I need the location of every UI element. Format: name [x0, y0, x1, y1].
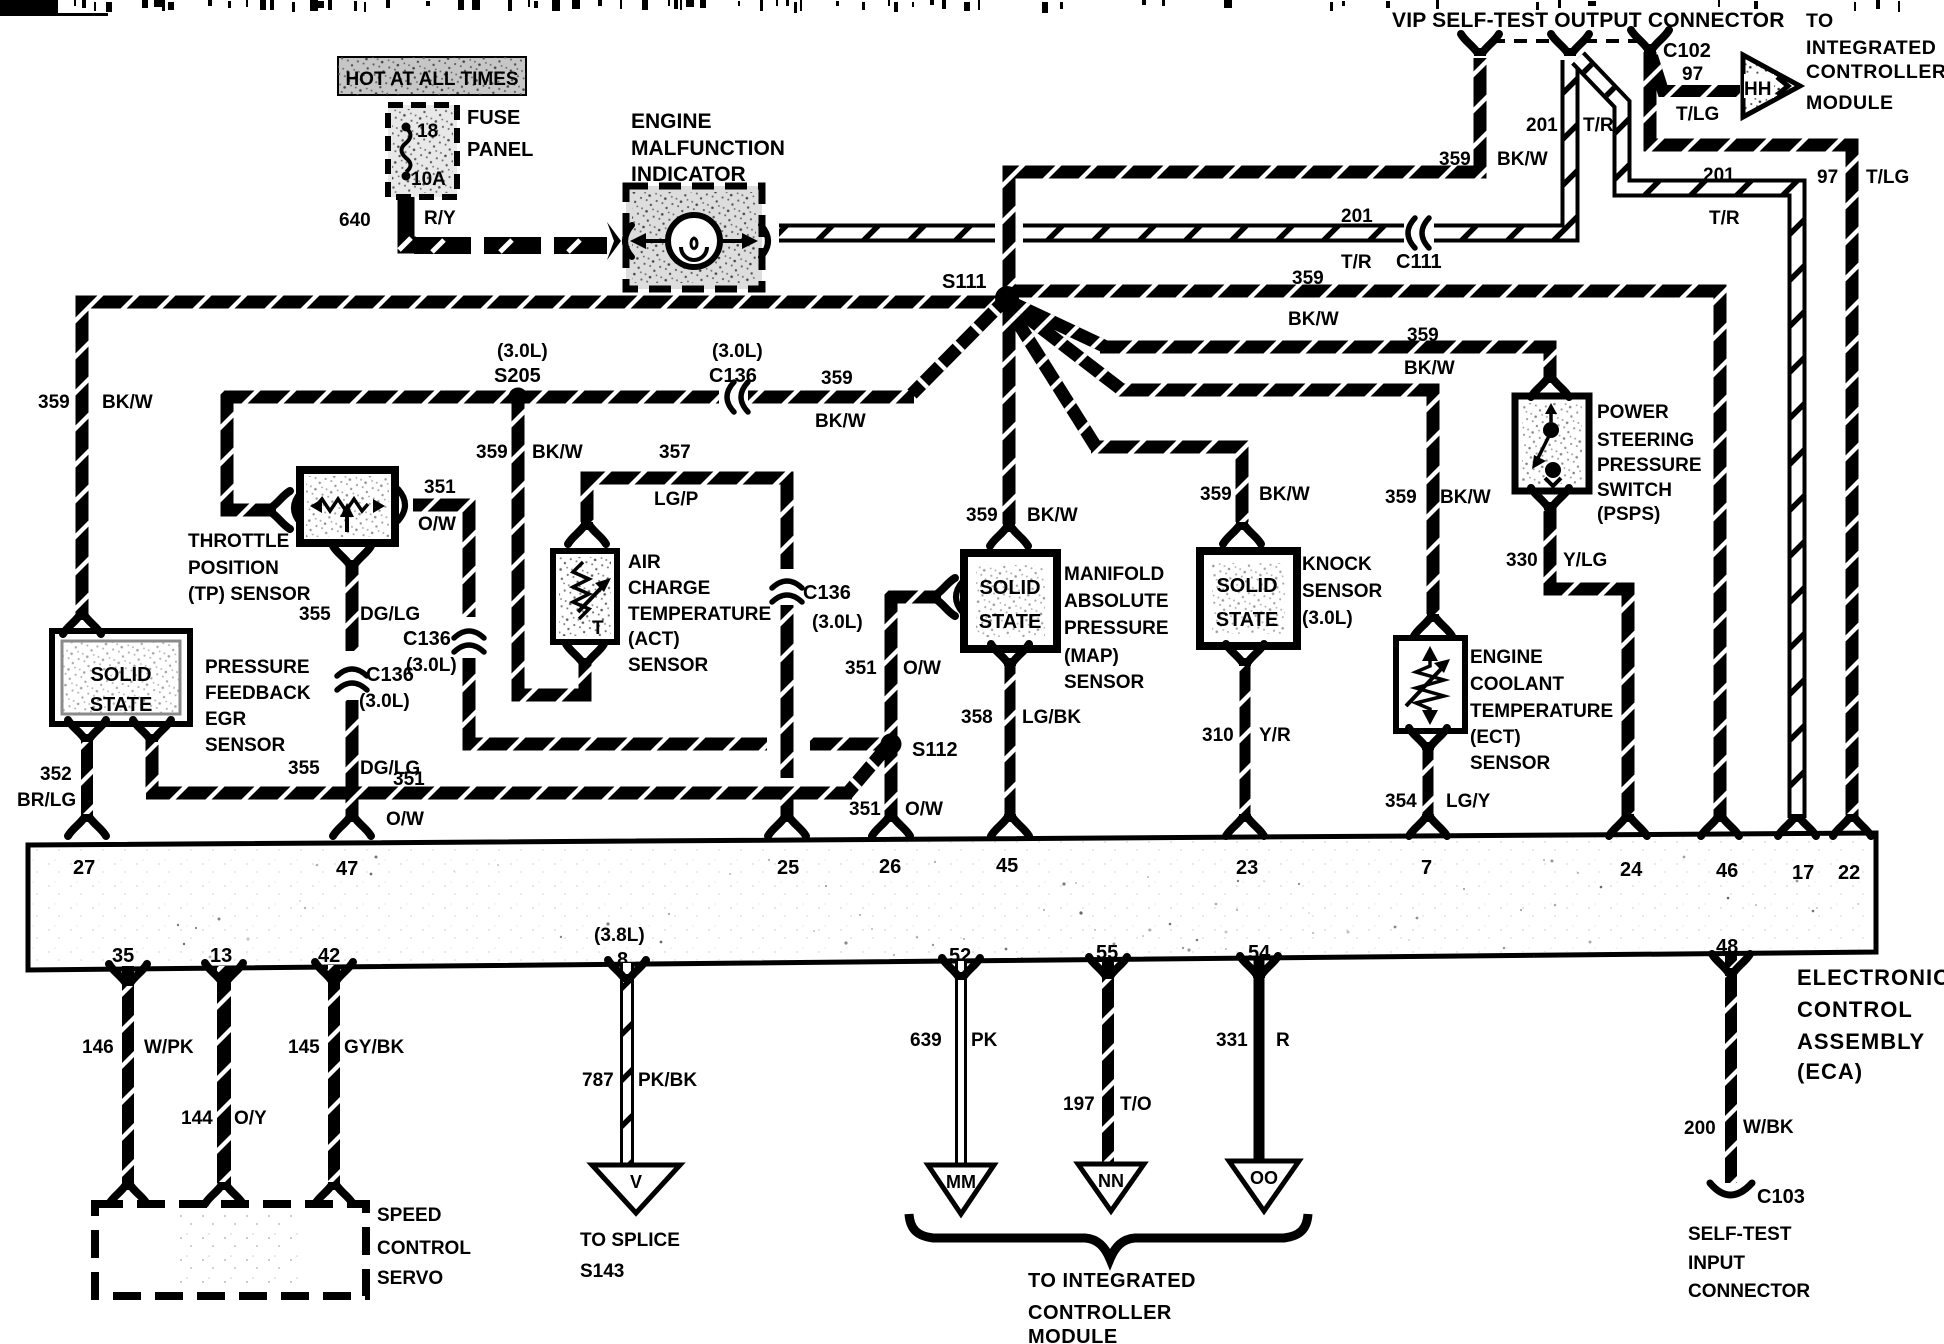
svg-text:PK/BK: PK/BK [638, 1070, 697, 1091]
TP sensor box [300, 470, 395, 543]
svg-text:359: 359 [1385, 487, 1417, 508]
fork: servo pin35 [109, 1182, 147, 1204]
VIP Y connector 1 [1461, 34, 1499, 56]
wire 351 O/W: EGR bottom-right stub across to S112 [146, 737, 159, 793]
svg-text:359: 359 [821, 368, 853, 389]
svg-text:ABSOLUTE: ABSOLUTE [1064, 591, 1169, 612]
C136 inline connector on ACT-down wire [772, 581, 802, 602]
svg-text:47: 47 [336, 858, 358, 880]
svg-text:EGR: EGR [205, 709, 246, 730]
svg-text:359: 359 [1200, 484, 1232, 505]
svg-text:T/R: T/R [1709, 208, 1740, 229]
wire 359 BK/W: S111 diagonal to PSPS top [1006, 300, 1106, 347]
svg-text:DG/LG: DG/LG [360, 604, 420, 625]
fork: pin13 bottom [205, 963, 243, 985]
svg-text:146: 146 [82, 1037, 114, 1058]
svg-text:359: 359 [1407, 325, 1439, 346]
svg-text:PRESSURE: PRESSURE [1597, 455, 1702, 476]
svg-text:BK/W: BK/W [532, 442, 583, 463]
svg-text:C136: C136 [803, 582, 851, 604]
svg-text:7: 7 [1421, 857, 1432, 879]
wire 357 LG/P: ACT sensor top loop over to C136 and down to ECA pin 25 [587, 478, 787, 569]
svg-text:351: 351 [393, 769, 425, 790]
svg-text:200: 200 [1684, 1118, 1716, 1139]
svg-text:201: 201 [1526, 115, 1558, 136]
svg-text:BK/W: BK/W [1404, 358, 1455, 379]
svg-text:(MAP): (MAP) [1064, 646, 1119, 667]
fork: pin54 bottom [1240, 956, 1278, 978]
svg-text:HOT AT ALL TIMES: HOT AT ALL TIMES [345, 69, 518, 90]
svg-text:C111: C111 [1396, 251, 1442, 273]
svg-text:AIR: AIR [628, 552, 661, 573]
svg-text:144: 144 [181, 1108, 213, 1129]
svg-text:VIP SELF-TEST OUTPUT CONNECTOR: VIP SELF-TEST OUTPUT CONNECTOR [1392, 9, 1785, 32]
svg-text:46: 46 [1716, 860, 1738, 882]
indicator arrows [637, 239, 668, 243]
svg-text:MODULE: MODULE [1028, 1326, 1118, 1344]
wire 359 BK/W: S111 right arm to ECA pin 46 [1010, 291, 1720, 818]
svg-text:C102: C102 [1663, 40, 1711, 62]
NN triangle [1078, 1164, 1144, 1211]
fork: PSPS top [1531, 375, 1569, 397]
fuse element symbol [402, 128, 411, 172]
wire 97 T/LG: C102 down, right, down to ECA pin 22 [1650, 52, 1852, 818]
svg-text:R/Y: R/Y [424, 208, 456, 229]
svg-text:CHARGE: CHARGE [628, 578, 710, 599]
wire 146 W/PK: ECA pin 35 to speed control servo [122, 966, 134, 1186]
svg-text:CONTROLLER: CONTROLLER [1806, 61, 1944, 83]
svg-text:C136: C136 [366, 664, 414, 686]
wire 97 T/LG: C102 to HH arrow [1652, 56, 1740, 91]
svg-text:TO SPLICE: TO SPLICE [580, 1230, 680, 1251]
fork: pin25 [768, 814, 806, 836]
C111 inline connector on 201 wire [1408, 218, 1429, 248]
MAP sensor solid state box [964, 553, 1057, 649]
svg-text:FEEDBACK: FEEDBACK [205, 683, 311, 704]
svg-text:BK/W: BK/W [102, 392, 153, 413]
fork: ACT bottom [566, 644, 604, 666]
svg-text:SENSOR: SENSOR [1064, 672, 1145, 693]
svg-text:T/O: T/O [1120, 1094, 1152, 1115]
svg-text:MM: MM [946, 1172, 976, 1192]
svg-text:PK: PK [971, 1030, 998, 1051]
wire 355 DG/LG: TP sensor bottom to ECA pin 47 (through C136) [346, 562, 359, 651]
svg-text:(TP) SENSOR: (TP) SENSOR [188, 584, 311, 605]
svg-text:O/W: O/W [903, 658, 941, 679]
svg-text:T/R: T/R [1583, 115, 1614, 136]
ECA electronic control assembly box [28, 833, 1876, 970]
junction dot S205 [509, 388, 528, 407]
svg-text:SERVO: SERVO [377, 1268, 443, 1289]
svg-text:359: 359 [966, 505, 998, 526]
fork: TP bottom [333, 546, 371, 568]
power steering pressure switch PSPS box [1515, 396, 1589, 491]
svg-text:S205: S205 [494, 365, 541, 387]
svg-text:351: 351 [845, 658, 877, 679]
svg-text:CONNECTOR: CONNECTOR [1688, 1281, 1810, 1302]
svg-text:W/PK: W/PK [144, 1037, 194, 1058]
svg-text:355: 355 [288, 758, 320, 779]
svg-text:T: T [592, 618, 604, 639]
svg-text:POSITION: POSITION [188, 558, 279, 579]
fork: pin22 [1833, 814, 1871, 836]
svg-text:97: 97 [1682, 64, 1703, 85]
wire 201 T/R: VIP Y2 diagonal down right to ECA pin 17 (thin) [1578, 58, 1797, 818]
fork: pin46 [1701, 814, 1739, 836]
C136 inline connector on S205 wire [727, 382, 748, 412]
svg-text:C103: C103 [1757, 1186, 1805, 1208]
junction dot S112 [881, 734, 902, 755]
TP potentiometer symbol [316, 499, 368, 511]
svg-text:PANEL: PANEL [467, 139, 533, 161]
fork: pin48 bottom [1712, 954, 1750, 976]
svg-text:(3.0L): (3.0L) [1302, 608, 1353, 629]
svg-text:S143: S143 [580, 1261, 624, 1282]
svg-text:POWER: POWER [1597, 402, 1669, 423]
svg-text:22: 22 [1838, 862, 1860, 884]
svg-text:HH: HH [1744, 79, 1771, 100]
svg-text:23: 23 [1236, 857, 1258, 879]
wire 351 O/W: S205 line feeding TP sensor left pin [748, 391, 914, 404]
svg-text:O/W: O/W [386, 809, 424, 830]
svg-text:CONTROLLER: CONTROLLER [1028, 1302, 1172, 1324]
fork: MAP top [990, 524, 1028, 546]
svg-text:GY/BK: GY/BK [344, 1037, 404, 1058]
svg-text:ENGINE: ENGINE [1470, 647, 1543, 668]
svg-text:355: 355 [299, 604, 331, 625]
svg-text:145: 145 [288, 1037, 320, 1058]
wire 351 O/W: TP sensor right pin down to S112 (through C136) [413, 505, 469, 617]
svg-text:13: 13 [210, 945, 232, 967]
svg-text:(3.0L): (3.0L) [359, 691, 410, 712]
svg-text:10A: 10A [411, 169, 446, 190]
junction dot S111 [995, 286, 1019, 310]
ACT sensor box [553, 551, 617, 642]
svg-text:COOLANT: COOLANT [1470, 674, 1564, 695]
svg-text:331: 331 [1216, 1030, 1248, 1051]
svg-text:O/W: O/W [418, 514, 456, 535]
wire 640 R/Y: fuse panel dashed wire to indicator [406, 193, 416, 245]
svg-text:48: 48 [1716, 936, 1738, 958]
svg-text:(3.0L): (3.0L) [812, 612, 863, 633]
svg-text:SOLID: SOLID [1216, 575, 1277, 597]
svg-text:SOLID: SOLID [90, 664, 151, 686]
svg-text:330: 330 [1506, 550, 1538, 571]
svg-text:SENSOR: SENSOR [1302, 581, 1383, 602]
ECT thermistor symbol [1422, 646, 1438, 661]
svg-text:KNOCK: KNOCK [1302, 554, 1372, 575]
svg-text:35: 35 [112, 945, 134, 967]
svg-text:Y/LG: Y/LG [1563, 550, 1607, 571]
svg-text:BK/W: BK/W [1440, 487, 1491, 508]
svg-text:359: 359 [1439, 149, 1471, 170]
svg-text:BK/W: BK/W [1288, 309, 1339, 330]
fork: servo pin42 [315, 1182, 353, 1204]
fork: ECT bottom [1409, 728, 1447, 750]
svg-text:359: 359 [1292, 268, 1324, 289]
fork: pin17 [1778, 814, 1816, 836]
fork: knock top [1223, 522, 1261, 544]
svg-text:TO INTEGRATED: TO INTEGRATED [1028, 1270, 1196, 1292]
svg-text:T/LG: T/LG [1676, 104, 1719, 125]
fork: pin24 [1609, 814, 1647, 836]
pressure feedback EGR sensor solid state box [52, 631, 190, 724]
svg-text:SENSOR: SENSOR [628, 655, 709, 676]
fork: servo pin13 [205, 1182, 243, 1204]
fork: pin42 bottom [315, 962, 353, 984]
svg-text:O/W: O/W [905, 799, 943, 820]
fork: pin35 bottom [109, 964, 147, 986]
svg-text:351: 351 [849, 799, 881, 820]
HOT AT ALL TIMES banner [338, 57, 526, 95]
MM triangle [928, 1165, 994, 1214]
fuse panel box [388, 105, 457, 197]
brace to integrated controller module [909, 1214, 1308, 1259]
wire 330 Y/LG: PSPS bottom jog to ECA pin 24 [1550, 506, 1628, 818]
wire 351 O/W: S112 down to ECA pin 26 [885, 750, 898, 818]
fork: PSPS bottom [1531, 488, 1569, 510]
scan noise band [0, 0, 1900, 16]
ACT thermistor symbol [573, 562, 589, 619]
svg-text:INPUT: INPUT [1688, 1253, 1745, 1274]
C136 inline connector on TP-bottom wire [337, 669, 367, 690]
svg-text:27: 27 [73, 857, 95, 879]
svg-text:BK/W: BK/W [1497, 149, 1548, 170]
fork: EGR top [63, 612, 101, 634]
svg-text:LG/Y: LG/Y [1446, 791, 1491, 812]
VIP dashed connector line [1492, 39, 1558, 43]
C136 inline connector on TP-out wire [454, 631, 484, 652]
fork: EGR bottom-right [133, 720, 171, 742]
indicator lamp [668, 215, 720, 267]
svg-text:(PSPS): (PSPS) [1597, 504, 1660, 525]
fork: pin8 bottom [608, 960, 646, 982]
fork: knock bottom [1226, 644, 1264, 666]
svg-text:197: 197 [1063, 1094, 1095, 1115]
svg-text:SELF-TEST: SELF-TEST [1688, 1224, 1792, 1245]
svg-text:LG/BK: LG/BK [1022, 707, 1081, 728]
svg-text:MALFUNCTION: MALFUNCTION [631, 137, 785, 160]
knock sensor solid state box [1200, 551, 1297, 646]
S111 vertical repaint over thin-wire gap [1003, 215, 1016, 255]
svg-text:T/R: T/R [1341, 252, 1372, 273]
wire 201 T/R: indicator to C111 and up to VIP Y2 (thin) [779, 224, 995, 243]
wire 359 BK/W: S111 down to MAP sensor top [1003, 305, 1016, 524]
svg-text:ENGINE: ENGINE [631, 110, 712, 133]
svg-text:17: 17 [1792, 862, 1814, 884]
svg-text:SENSOR: SENSOR [1470, 753, 1551, 774]
fork: pin47 [333, 814, 371, 836]
svg-text:(ACT): (ACT) [628, 629, 680, 650]
svg-text:STEERING: STEERING [1597, 430, 1694, 451]
wire 144 O/Y: ECA pin 13 to speed control servo [217, 966, 231, 1186]
wire 359 BK/W: S111 diagonal to knock sensor top [1005, 302, 1096, 447]
fork: ECT top [1414, 614, 1452, 636]
fork: pin7 [1409, 814, 1447, 836]
svg-text:CONTROL: CONTROL [377, 1238, 471, 1259]
wire 200 W/BK: ECA pin 48 to C103 [1725, 955, 1737, 1183]
svg-text:T/LG: T/LG [1866, 167, 1909, 188]
svg-text:INDICATOR: INDICATOR [631, 163, 746, 186]
svg-text:OO: OO [1250, 1168, 1278, 1188]
svg-text:359: 359 [38, 392, 70, 413]
fork: MAP bottom [991, 644, 1029, 666]
svg-text:ELECTRONIC: ELECTRONIC [1797, 965, 1944, 990]
svg-text:Y/R: Y/R [1259, 725, 1291, 746]
svg-text:SPEED: SPEED [377, 1205, 441, 1226]
OO triangle [1229, 1161, 1299, 1211]
svg-text:FUSE: FUSE [467, 107, 520, 129]
svg-text:358: 358 [961, 707, 993, 728]
fork: pin23 [1226, 814, 1264, 836]
svg-text:BK/W: BK/W [1259, 484, 1310, 505]
wire 639 PK: ECA pin 52 to MM (thin plain) [955, 961, 967, 1168]
svg-text:97: 97 [1817, 167, 1838, 188]
wire 310 Y/R: knock sensor bottom to ECA pin 23 [1240, 660, 1251, 818]
svg-text:18: 18 [417, 121, 438, 142]
wire 359 BK/W: S111 diagonal down-left to S205 line [912, 300, 1005, 394]
wire 197 T/O: ECA pin 55 to NN [1102, 960, 1114, 1168]
svg-text:(3.8L): (3.8L) [594, 925, 645, 946]
V splice triangle [592, 1165, 680, 1213]
svg-text:SWITCH: SWITCH [1597, 480, 1672, 501]
fork: TP left feed [268, 491, 290, 529]
svg-text:26: 26 [879, 856, 901, 878]
svg-text:(ECT): (ECT) [1470, 727, 1521, 748]
svg-text:S111: S111 [942, 271, 987, 293]
svg-text:BK/W: BK/W [1027, 505, 1078, 526]
fork: S112-to-MAP [933, 578, 955, 616]
svg-text:INTEGRATED: INTEGRATED [1806, 37, 1936, 59]
svg-text:MODULE: MODULE [1806, 92, 1894, 114]
svg-text:THROTTLE: THROTTLE [188, 531, 289, 552]
TP left pin connector [294, 492, 301, 524]
indicator right connector [761, 225, 768, 257]
wire 359 BK/W: S111 left arm down to EGR sensor [82, 302, 1004, 618]
fork: ACT top [568, 522, 606, 544]
svg-text:(3.0L): (3.0L) [497, 341, 548, 362]
fork: pin27 [68, 814, 106, 836]
svg-text:SENSOR: SENSOR [205, 735, 286, 756]
svg-text:354: 354 [1385, 791, 1417, 812]
wire 359 BK/W: S111 diagonal to ECT sensor top [1006, 301, 1122, 390]
svg-text:787: 787 [582, 1070, 614, 1091]
wire 354 LG/Y: ECT sensor bottom to ECA pin 7 [1423, 745, 1434, 818]
svg-text:S112: S112 [912, 739, 958, 761]
speed control servo dashed box [95, 1204, 366, 1296]
svg-text:STATE: STATE [90, 694, 153, 716]
svg-text:359: 359 [476, 442, 508, 463]
svg-text:V: V [630, 1172, 642, 1192]
svg-text:639: 639 [910, 1030, 942, 1051]
fork: pin26 [872, 814, 910, 836]
C103 connector [1710, 1183, 1752, 1195]
svg-text:351: 351 [424, 477, 456, 498]
wire 351 O/W: S112 up to MAP sensor left pin [891, 597, 938, 738]
svg-text:25: 25 [777, 857, 799, 879]
svg-text:ASSEMBLY: ASSEMBLY [1797, 1029, 1925, 1054]
svg-text:C136: C136 [403, 628, 451, 650]
svg-text:201: 201 [1341, 206, 1373, 227]
wire 359 BK/W: S205 branch down and into ACT sensor bottom [518, 400, 585, 695]
svg-text:310: 310 [1202, 725, 1234, 746]
svg-text:(ECA): (ECA) [1797, 1059, 1863, 1084]
fork: pin55 bottom [1089, 957, 1127, 979]
fork: pin45 [991, 814, 1029, 836]
wire 787 PK/BK: ECA pin 8 to splice S143 (thin) [620, 963, 634, 1168]
svg-text:W/BK: W/BK [1743, 1117, 1794, 1138]
svg-text:LG/P: LG/P [654, 489, 699, 510]
svg-text:TEMPERATURE: TEMPERATURE [1470, 701, 1613, 722]
TP right pin connector [398, 489, 405, 521]
wire 359 BK/W: S111 up and right to VIP connector (C102 area Y1) [1009, 58, 1480, 306]
svg-text:MANIFOLD: MANIFOLD [1064, 564, 1164, 585]
svg-text:C136: C136 [709, 365, 757, 387]
engine malfunction indicator box [626, 186, 762, 289]
wire 145 GY/BK: ECA pin 42 to speed control servo [328, 965, 340, 1186]
svg-text:640: 640 [339, 210, 371, 231]
svg-text:24: 24 [1620, 859, 1643, 881]
indicator left connector [607, 222, 621, 260]
svg-text:NN: NN [1098, 1171, 1124, 1191]
svg-text:CONTROL: CONTROL [1797, 997, 1913, 1022]
svg-text:BR/LG: BR/LG [17, 790, 76, 811]
wire 358 LG/BK: MAP sensor bottom to ECA pin 45 [1005, 660, 1016, 818]
ECT sensor box [1396, 638, 1465, 731]
HH arrow to integrated controller module [1743, 55, 1800, 117]
svg-text:SOLID: SOLID [979, 577, 1040, 599]
svg-text:BK/W: BK/W [815, 411, 866, 432]
VIP Y connector 2 [1551, 34, 1589, 56]
svg-text:PRESSURE: PRESSURE [1064, 618, 1169, 639]
svg-text:TO: TO [1806, 10, 1834, 32]
svg-text:PRESSURE: PRESSURE [205, 657, 310, 678]
svg-text:R: R [1276, 1030, 1290, 1051]
fork: EGR bottom-left [68, 720, 106, 742]
fork: pin52 bottom [942, 958, 980, 980]
svg-text:357: 357 [659, 442, 691, 463]
svg-text:O/Y: O/Y [234, 1108, 267, 1129]
wire 352 BR/LG: EGR bottom-left stub to ECA pin 27 [81, 737, 93, 818]
svg-text:352: 352 [40, 764, 72, 785]
svg-text:(3.0L): (3.0L) [712, 341, 763, 362]
svg-text:201: 201 [1703, 165, 1735, 186]
svg-text:STATE: STATE [1216, 609, 1279, 631]
svg-text:42: 42 [318, 945, 340, 967]
wire 331 R: ECA pin 54 to OO (solid) [1254, 958, 1265, 1164]
VIP Y connector C102 [1631, 30, 1669, 52]
svg-text:STATE: STATE [979, 611, 1042, 633]
svg-text:TEMPERATURE: TEMPERATURE [628, 604, 771, 625]
svg-text:45: 45 [996, 855, 1018, 877]
